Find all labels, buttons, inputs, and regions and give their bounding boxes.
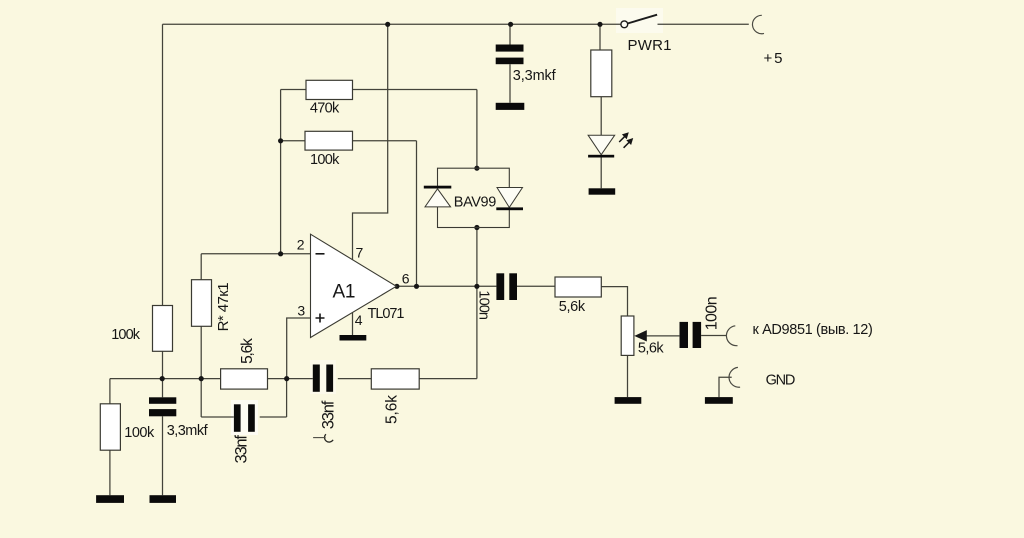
- junction dots top rail: [160, 22, 603, 382]
- svg-text:100k: 100k: [310, 152, 340, 168]
- switch PWR1 contact circle: [621, 21, 628, 28]
- wire right vertical x=476.9 three segments: [476, 90, 478, 379]
- node: top rail / PWR1 branch: [597, 22, 602, 27]
- node: top rail / 3,3mkf cap: [508, 22, 513, 27]
- LED arrow 2: [624, 142, 630, 148]
- stray mark C below 33nf C2: [325, 434, 334, 442]
- resistor 470k: [306, 80, 353, 99]
- resistor 100k left: [153, 306, 173, 352]
- svg-text:100n: 100n: [476, 290, 492, 320]
- node: output / feedback: [414, 284, 419, 289]
- wire wiper to 100n cap: [647, 335, 680, 337]
- LED cathode bar: [588, 155, 614, 158]
- wire GND connector lead: [719, 377, 732, 397]
- svg-text:3,3mkf: 3,3mkf: [167, 423, 209, 439]
- capacitor 33nf C1: plate 2: [248, 404, 255, 432]
- svg-text:PWR1: PWR1: [628, 37, 672, 54]
- wire 3,3mkf cap to ground: [162, 416, 164, 495]
- BAV99 left diode cathode bar: [424, 186, 452, 189]
- resistor 100k bottom left: [100, 404, 120, 450]
- svg-text:100n: 100n: [703, 296, 720, 330]
- wire pin3 vertical and horizontal: [287, 318, 311, 379]
- node: op-amp output apex: [394, 284, 399, 289]
- ground below 3,3mkf bottom: [150, 495, 177, 503]
- capacitor 100n right: plate 2: [693, 322, 702, 348]
- wire 33nf C1 branch: [201, 416, 286, 418]
- svg-text:A1: A1: [333, 282, 356, 303]
- op-amp minus sign: [316, 253, 325, 255]
- capacitor 100n right: plate 1: [680, 322, 689, 348]
- wire left vertical from top rail: [162, 24, 164, 305]
- svg-text:33nf: 33nf: [233, 435, 251, 464]
- svg-text:BAV99: BAV99: [454, 194, 497, 210]
- ground below LED: [589, 188, 616, 194]
- capacitor 100n output: plate 1: [496, 273, 504, 300]
- ground bar GND connector: [705, 397, 733, 404]
- resistor 5,6k on bottom rail: [221, 369, 268, 389]
- wire pin2 horizontal: [201, 253, 310, 255]
- node: bottom rail / R*: [199, 376, 204, 381]
- resistor PWR1 branch: [591, 50, 612, 97]
- wire pin4 to ground: [352, 312, 354, 335]
- wire op-amp output: [396, 285, 496, 287]
- BAV99 right diode cathode bar: [496, 207, 523, 210]
- svg-text:GND: GND: [766, 372, 796, 388]
- svg-text:3: 3: [297, 302, 305, 318]
- wire top rail: [163, 23, 621, 25]
- wire 100n cap to connector: [701, 335, 726, 337]
- capacitor 33nf C2: plate 2: [326, 365, 333, 392]
- svg-text:к AD9851 (выв. 12): к AD9851 (выв. 12): [753, 322, 873, 338]
- potentiometer 5,6k body: [621, 316, 634, 355]
- op-amp A1 triangle: [311, 234, 397, 337]
- wire 100k feedback leads: [281, 140, 417, 142]
- capacitor 3,3mkf top: plate 2: [496, 58, 524, 65]
- connector +5 arc: [752, 15, 764, 33]
- wire R* top lead to pin2: [200, 254, 202, 280]
- connector GND arc: [729, 367, 740, 387]
- svg-text:3,3mkf: 3,3mkf: [513, 68, 557, 84]
- LED arrow 1: [619, 136, 625, 142]
- potentiometer wiper arrow: [634, 330, 647, 341]
- wire 5,6k to potentiometer: [601, 287, 627, 316]
- wire R* bottom lead through rail: [200, 326, 202, 417]
- svg-text:100k: 100k: [124, 425, 155, 441]
- node: pin2: [278, 251, 283, 256]
- svg-text:5,6k: 5,6k: [239, 338, 256, 364]
- node: BAV99 bottom: [474, 225, 479, 230]
- node: 470k loop / 100k feedback: [278, 138, 283, 143]
- op-amp plus sign: [316, 314, 325, 323]
- connector к AD9851 arc: [726, 326, 737, 346]
- capacitor 33nf C1: plate 1: [234, 404, 241, 432]
- white patch behind 33nf C1: [231, 400, 258, 435]
- svg-text:TL071: TL071: [368, 306, 405, 322]
- wire PWR1 resistor leads and LED: [600, 24, 601, 188]
- svg-text:R* 47к1: R* 47к1: [215, 282, 232, 331]
- ground bar potentiometer: [615, 397, 642, 404]
- wire 100k feedback vertical to output: [416, 141, 418, 286]
- svg-text:100k: 100k: [111, 327, 141, 343]
- BAV99 box: [438, 168, 510, 227]
- BAV99 left diode triangle: [425, 189, 451, 207]
- wire 3,3mkf top cap leads: [509, 24, 511, 103]
- svg-text:5,6k: 5,6k: [384, 395, 401, 424]
- capacitor 3,3mkf bottom: plate 1: [149, 397, 176, 404]
- svg-text:2: 2: [297, 237, 305, 253]
- wire 470k leads: [281, 89, 477, 91]
- svg-text:7: 7: [356, 245, 364, 261]
- wire rail left corner down to 100k: [109, 379, 111, 404]
- node: output / BAV99 branch: [474, 284, 479, 289]
- node: BAV99 top: [474, 166, 479, 171]
- capacitor 3,3mkf top: plate 1: [496, 45, 524, 52]
- wire after switch to +5 connector: [658, 23, 749, 25]
- svg-text:4: 4: [355, 312, 363, 328]
- switch PWR1 lever: [628, 15, 657, 24]
- wire 100k left bottom lead: [162, 351, 164, 397]
- wire pin7 jog from top rail: [353, 24, 388, 259]
- resistor R* 47k1: [192, 280, 212, 327]
- node: bottom rail / 100k left: [160, 376, 165, 381]
- resistor 100k feedback: [305, 131, 353, 150]
- wire potentiometer to ground: [627, 355, 629, 397]
- white patch behind 33nf C2: [310, 360, 336, 394]
- resistor 5,6k output: [555, 277, 601, 297]
- white patch behind switch: [616, 8, 663, 33]
- ground below pin 4: [340, 335, 367, 341]
- capacitor 100n output: plate 2: [509, 273, 517, 300]
- capacitor 33nf C2: plate 1: [313, 365, 320, 392]
- node: top rail / pin7 branch: [385, 22, 390, 27]
- ground below 3,3mkf top: [496, 103, 525, 110]
- BAV99 right diode triangle: [497, 188, 523, 208]
- capacitor 3,3mkf bottom: plate 2: [149, 409, 176, 416]
- svg-text:470k: 470k: [310, 101, 340, 117]
- wire output cap to 5,6k: [517, 285, 555, 287]
- wire 33nf C1 right side up to rail: [286, 379, 288, 417]
- svg-text:5,6k: 5,6k: [559, 299, 586, 315]
- svg-text:6: 6: [402, 271, 410, 287]
- wire 470k loop left vertical: [280, 90, 282, 254]
- node: bottom rail / pin3: [284, 376, 289, 381]
- ground below 100k bottom left: [96, 495, 124, 503]
- svg-text:33nf: 33nf: [319, 400, 337, 429]
- wire 100k bottom to ground: [109, 450, 111, 495]
- stray tick line below 33nf C2: [313, 437, 326, 439]
- wire bottom rail: [110, 378, 477, 380]
- resistor 5,6k second on rail: [371, 369, 419, 389]
- svg-text:5,6k: 5,6k: [638, 340, 664, 356]
- LED triangle: [588, 135, 615, 155]
